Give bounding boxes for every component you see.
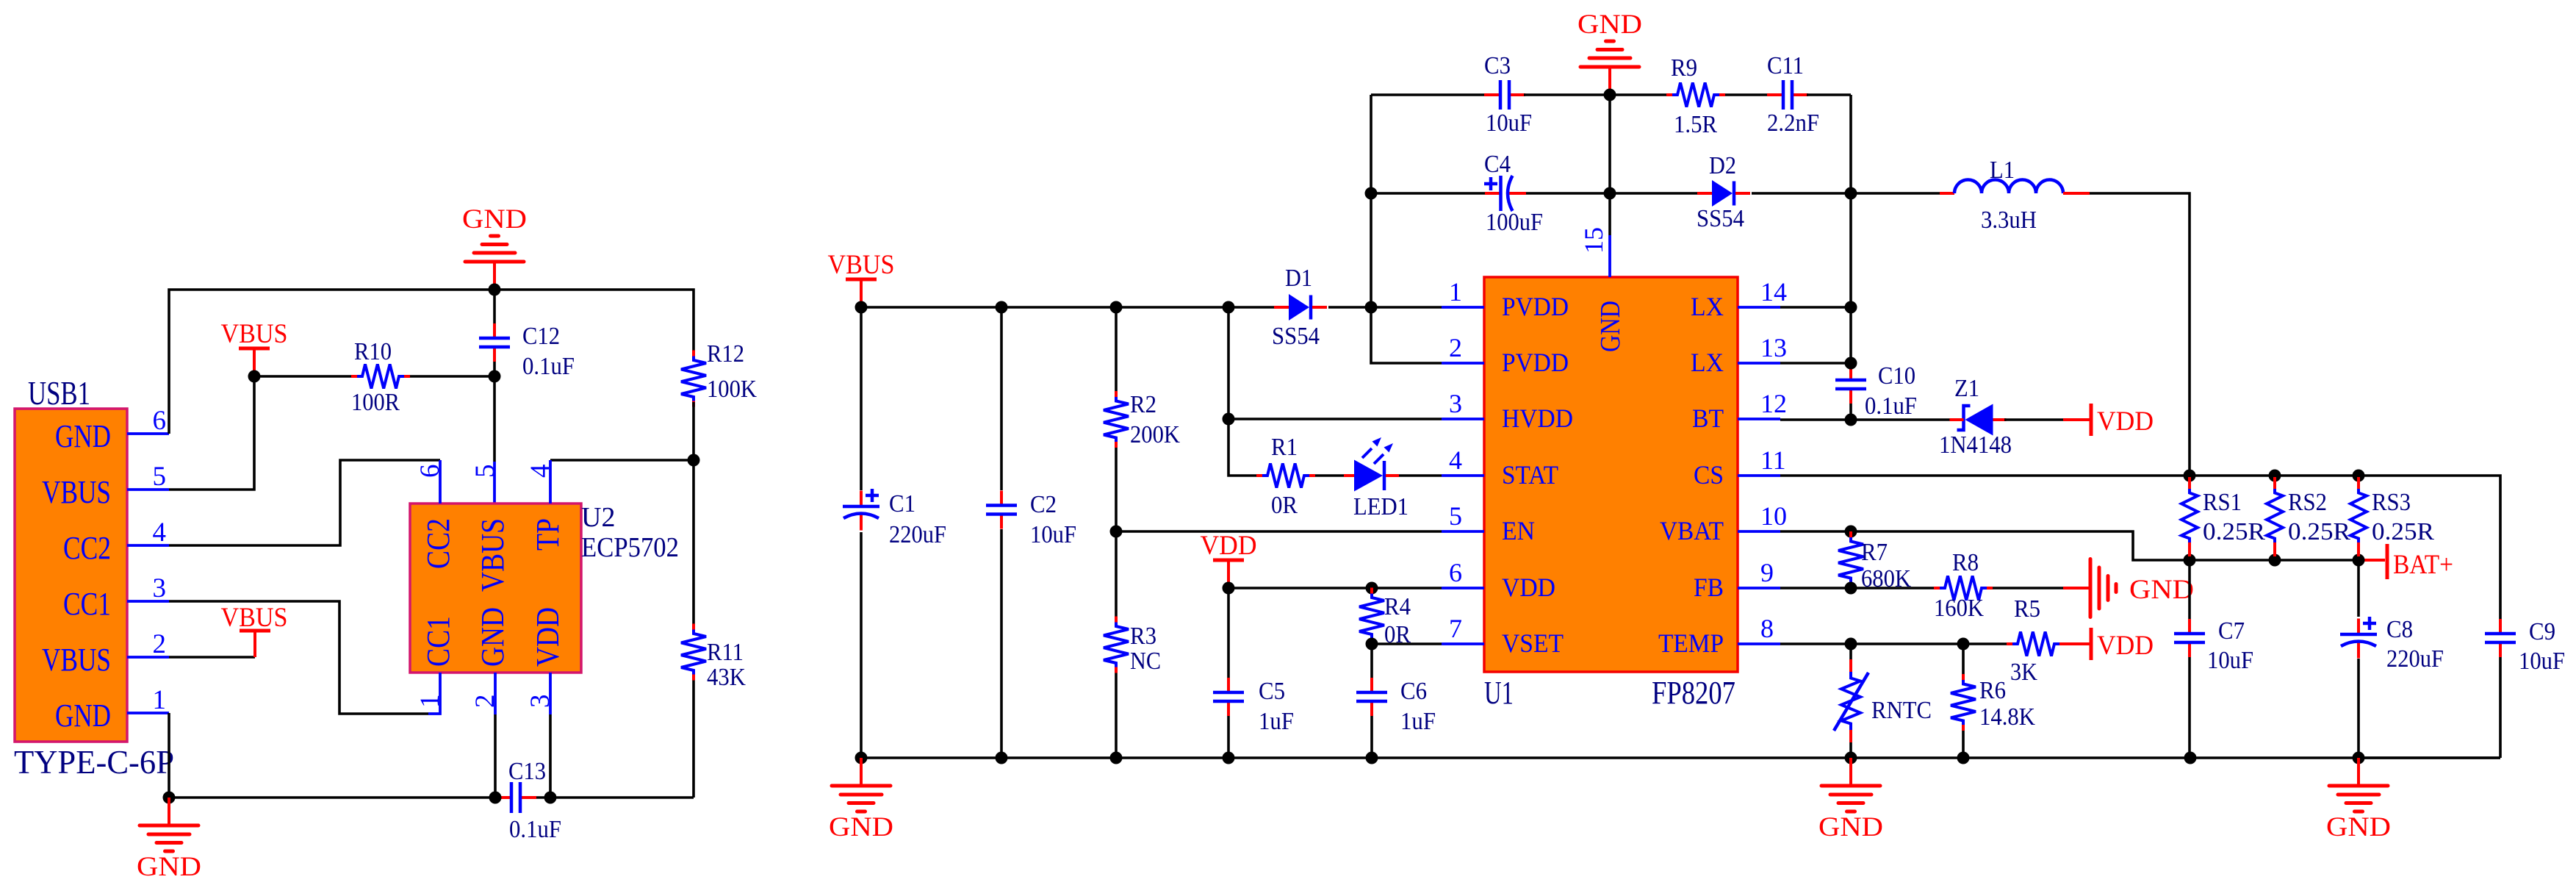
svg-text:C10: C10 xyxy=(1878,362,1915,390)
svg-text:1: 1 xyxy=(415,695,445,709)
svg-text:CC2: CC2 xyxy=(63,530,111,566)
svg-text:FP8207: FP8207 xyxy=(1652,675,1735,711)
svg-text:GND: GND xyxy=(2326,812,2391,842)
svg-text:C1: C1 xyxy=(889,490,915,517)
svg-text:GND: GND xyxy=(55,698,111,734)
svg-text:BAT+: BAT+ xyxy=(2393,550,2453,580)
svg-text:R2: R2 xyxy=(1130,391,1156,418)
svg-text:C11: C11 xyxy=(1767,52,1804,79)
svg-text:220uF: 220uF xyxy=(889,521,946,548)
svg-text:3.3uH: 3.3uH xyxy=(1981,207,2037,234)
svg-text:0.1uF: 0.1uF xyxy=(509,816,561,843)
svg-text:200K: 200K xyxy=(1130,421,1180,448)
svg-text:8: 8 xyxy=(1760,614,1774,643)
svg-text:1N4148: 1N4148 xyxy=(1939,431,2012,459)
svg-text:R7: R7 xyxy=(1861,539,1888,566)
svg-text:R5: R5 xyxy=(2014,595,2040,623)
svg-text:4: 4 xyxy=(525,465,555,479)
svg-text:RS2: RS2 xyxy=(2288,489,2327,516)
svg-text:VBUS: VBUS xyxy=(42,642,111,678)
svg-text:RS3: RS3 xyxy=(2372,489,2411,516)
svg-text:L1: L1 xyxy=(1990,157,2015,184)
svg-text:1.5R: 1.5R xyxy=(1674,111,1717,138)
svg-text:GND: GND xyxy=(1595,301,1626,352)
svg-text:3K: 3K xyxy=(2010,659,2037,686)
svg-text:R10: R10 xyxy=(354,338,392,365)
svg-text:VBUS: VBUS xyxy=(221,319,288,349)
svg-text:HVDD: HVDD xyxy=(1502,404,1573,433)
svg-text:5: 5 xyxy=(153,462,167,492)
svg-text:3: 3 xyxy=(153,573,167,603)
svg-text:C3: C3 xyxy=(1484,52,1511,79)
svg-text:VBUS: VBUS xyxy=(475,518,511,592)
svg-text:VDD: VDD xyxy=(1502,573,1555,602)
svg-text:C9: C9 xyxy=(2529,618,2555,645)
svg-text:USB1: USB1 xyxy=(28,375,90,412)
svg-text:BT: BT xyxy=(1692,404,1724,433)
svg-text:2.2nF: 2.2nF xyxy=(1767,110,1819,137)
svg-text:VDD: VDD xyxy=(530,607,566,667)
svg-text:R8: R8 xyxy=(1952,549,1979,576)
svg-text:4: 4 xyxy=(1449,445,1462,475)
svg-text:14.8K: 14.8K xyxy=(1979,703,2035,731)
svg-text:EN: EN xyxy=(1502,516,1535,545)
svg-text:10uF: 10uF xyxy=(1030,521,1076,548)
svg-text:TEMP: TEMP xyxy=(1658,628,1724,658)
svg-text:1: 1 xyxy=(153,685,167,715)
svg-text:100uF: 100uF xyxy=(1486,209,1543,236)
svg-text:0R: 0R xyxy=(1271,492,1298,519)
svg-text:SS54: SS54 xyxy=(1697,205,1744,232)
svg-text:TP: TP xyxy=(530,518,566,551)
svg-text:6: 6 xyxy=(153,406,167,436)
svg-text:LX: LX xyxy=(1691,348,1724,377)
svg-text:GND: GND xyxy=(475,607,511,667)
svg-text:1: 1 xyxy=(1449,277,1462,307)
svg-text:R11: R11 xyxy=(707,639,744,666)
svg-text:CC1: CC1 xyxy=(63,586,111,622)
svg-text:5: 5 xyxy=(470,465,500,479)
svg-text:STAT: STAT xyxy=(1502,460,1558,490)
svg-text:3: 3 xyxy=(1449,389,1462,418)
svg-text:GND: GND xyxy=(137,852,201,882)
svg-text:10uF: 10uF xyxy=(1486,110,1532,137)
svg-text:15: 15 xyxy=(1579,227,1608,254)
svg-text:C7: C7 xyxy=(2218,617,2245,645)
svg-text:C12: C12 xyxy=(522,323,560,350)
svg-text:FB: FB xyxy=(1694,573,1724,602)
svg-text:VSET: VSET xyxy=(1502,628,1564,658)
svg-text:D1: D1 xyxy=(1285,265,1312,292)
svg-text:VDD: VDD xyxy=(2097,406,2154,437)
svg-text:160K: 160K xyxy=(1934,595,1984,622)
svg-text:PVDD: PVDD xyxy=(1502,348,1569,377)
svg-text:6: 6 xyxy=(415,465,445,479)
svg-text:2: 2 xyxy=(153,629,167,659)
svg-text:C4: C4 xyxy=(1484,151,1511,178)
svg-text:LX: LX xyxy=(1691,292,1724,321)
svg-text:5: 5 xyxy=(1449,501,1462,531)
svg-text:C6: C6 xyxy=(1400,678,1427,705)
svg-text:VBUS: VBUS xyxy=(828,250,895,280)
svg-text:R6: R6 xyxy=(1979,677,2006,704)
svg-text:LED1: LED1 xyxy=(1353,493,1408,520)
svg-text:9: 9 xyxy=(1760,558,1774,587)
svg-text:10uF: 10uF xyxy=(2519,648,2565,675)
svg-text:2: 2 xyxy=(470,695,500,709)
svg-text:VDD: VDD xyxy=(2097,631,2154,661)
svg-text:RS1: RS1 xyxy=(2203,489,2242,516)
svg-text:R1: R1 xyxy=(1271,434,1298,461)
svg-text:14: 14 xyxy=(1760,277,1787,307)
svg-text:1uF: 1uF xyxy=(1259,708,1294,735)
svg-text:CC1: CC1 xyxy=(420,616,456,667)
svg-text:SS54: SS54 xyxy=(1272,323,1320,350)
svg-text:43K: 43K xyxy=(707,664,746,691)
svg-text:R4: R4 xyxy=(1384,593,1411,620)
svg-text:GND: GND xyxy=(1818,812,1883,842)
svg-text:ECP5702: ECP5702 xyxy=(581,532,679,563)
svg-text:Z1: Z1 xyxy=(1954,375,1979,402)
svg-text:C13: C13 xyxy=(508,758,546,785)
svg-text:TYPE-C-6P: TYPE-C-6P xyxy=(14,744,174,781)
svg-text:4: 4 xyxy=(153,517,167,548)
svg-text:VBUS: VBUS xyxy=(42,474,111,510)
svg-text:VDD: VDD xyxy=(1201,531,1257,561)
svg-text:RNTC: RNTC xyxy=(1871,697,1932,724)
svg-text:VBAT: VBAT xyxy=(1660,516,1724,545)
svg-text:VBUS: VBUS xyxy=(221,603,288,633)
svg-text:12: 12 xyxy=(1760,389,1787,418)
svg-text:100K: 100K xyxy=(707,376,757,403)
svg-text:CS: CS xyxy=(1694,460,1724,490)
svg-text:R12: R12 xyxy=(707,340,744,368)
svg-text:NC: NC xyxy=(1130,648,1161,675)
svg-text:D2: D2 xyxy=(1709,152,1736,179)
svg-text:GND: GND xyxy=(829,812,893,842)
svg-text:10uF: 10uF xyxy=(2207,647,2253,674)
svg-text:GND: GND xyxy=(462,204,527,234)
svg-text:R3: R3 xyxy=(1130,623,1156,650)
svg-text:3: 3 xyxy=(525,695,555,709)
svg-text:GND: GND xyxy=(55,418,111,454)
svg-text:C8: C8 xyxy=(2386,616,2413,643)
svg-text:10: 10 xyxy=(1760,501,1787,531)
svg-text:13: 13 xyxy=(1760,333,1787,362)
svg-text:7: 7 xyxy=(1449,614,1462,643)
svg-text:0.25R: 0.25R xyxy=(2288,518,2350,545)
svg-text:0.1uF: 0.1uF xyxy=(1865,393,1917,420)
svg-text:11: 11 xyxy=(1760,445,1786,475)
svg-text:CC2: CC2 xyxy=(420,518,456,569)
svg-text:2: 2 xyxy=(1449,333,1462,362)
svg-text:U2: U2 xyxy=(581,502,615,533)
svg-text:GND: GND xyxy=(2129,575,2194,605)
svg-text:0.25R: 0.25R xyxy=(2203,518,2265,545)
svg-text:PVDD: PVDD xyxy=(1502,292,1569,321)
svg-text:1uF: 1uF xyxy=(1400,708,1436,735)
svg-text:R9: R9 xyxy=(1671,54,1697,82)
svg-text:U1: U1 xyxy=(1484,675,1514,711)
svg-text:0.25R: 0.25R xyxy=(2372,518,2434,545)
svg-text:100R: 100R xyxy=(351,389,400,416)
svg-text:GND: GND xyxy=(1577,10,1642,40)
svg-text:0.1uF: 0.1uF xyxy=(522,353,575,380)
svg-text:6: 6 xyxy=(1449,558,1462,587)
svg-text:C5: C5 xyxy=(1259,678,1285,705)
svg-text:220uF: 220uF xyxy=(2386,645,2444,673)
svg-text:C2: C2 xyxy=(1030,491,1057,518)
